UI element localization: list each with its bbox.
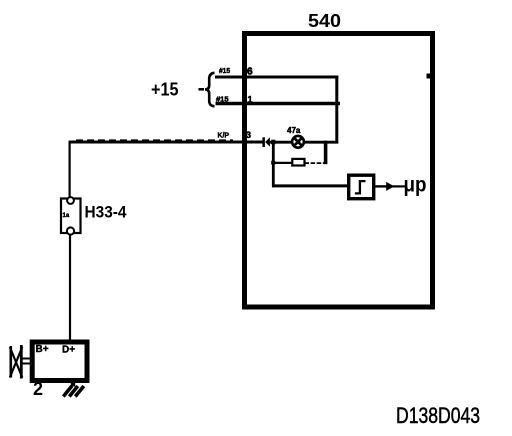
svg-text:H33-4: H33-4 [85, 203, 127, 222]
wire lamp to bus [304, 141, 339, 144]
svg-text:47a: 47a [287, 126, 301, 135]
threshold stage box [349, 175, 374, 199]
lamp cross stroke 2 [294, 138, 302, 146]
svg-text:+15: +15 [151, 80, 179, 100]
shaft upper line [23, 358, 33, 360]
resistor body [292, 159, 304, 166]
wire 15b (feed to pin 1) [216, 102, 341, 106]
arrow tail line [393, 185, 406, 187]
control unit box 540 [245, 34, 433, 308]
connector pin circle bottom [67, 227, 74, 234]
svg-text:D+: D+ [62, 345, 75, 356]
svg-text:K/P: K/P [218, 133, 230, 140]
wire scan ragged edge [76, 139, 233, 141]
ground stub [71, 383, 75, 387]
wire to threshold stage [272, 184, 349, 187]
pulley left disc [10, 346, 13, 378]
wire 15a (top feed to pin 6) [215, 76, 338, 79]
svg-text:6: 6 [247, 67, 253, 78]
wire junction down to resistor branch [272, 142, 275, 187]
wire diode to lamp [269, 141, 293, 144]
svg-text:3: 3 [246, 130, 251, 140]
brace for +15 supply [205, 73, 215, 106]
svg-text:B+: B+ [36, 344, 49, 355]
junction dot resistor branch [271, 161, 275, 165]
svg-text:1: 1 [248, 95, 253, 105]
wire vertical bus inside 540 [335, 76, 338, 144]
resistor branch riser right [324, 141, 328, 165]
junction dot after diode [271, 140, 275, 145]
resistor branch wire left [273, 162, 292, 164]
ground hatch 3 [75, 386, 84, 397]
svg-text:D138D043: D138D043 [396, 403, 480, 428]
shaft lower line [23, 363, 33, 365]
svg-text:1a: 1a [63, 213, 70, 219]
ground hatch 1 [63, 386, 72, 397]
ground hatch 2 [69, 386, 78, 397]
svg-text:2: 2 [33, 379, 43, 399]
svg-text:540: 540 [308, 11, 341, 31]
indicator lamp circle [292, 136, 304, 148]
wire connector to generator D+ [69, 234, 71, 342]
tick on right border [427, 74, 432, 79]
dash before brace [199, 88, 205, 91]
pulley belt cross 1 [10, 347, 22, 378]
diode cathode bar [262, 137, 265, 147]
connector H33-4 body [61, 199, 81, 234]
resistor branch wire right [305, 162, 326, 164]
generator G1 box [32, 342, 87, 381]
pulley belt cross 2 [10, 347, 22, 378]
wire vertical to connector H33-4 [68, 141, 70, 198]
connector pin circle top [67, 197, 74, 204]
arrow head [386, 182, 394, 191]
diode triangle [265, 137, 270, 147]
svg-text:#15: #15 [219, 68, 230, 75]
wire D+ from H33-4 to pin 3 [70, 141, 263, 144]
wire threshold to microprocessor [375, 185, 388, 187]
svg-text:#15: #15 [216, 97, 229, 104]
svg-text:μp: μp [404, 174, 427, 197]
lamp cross stroke 1 [294, 138, 302, 146]
pulley right disc [20, 345, 23, 379]
step function symbol [355, 181, 366, 193]
